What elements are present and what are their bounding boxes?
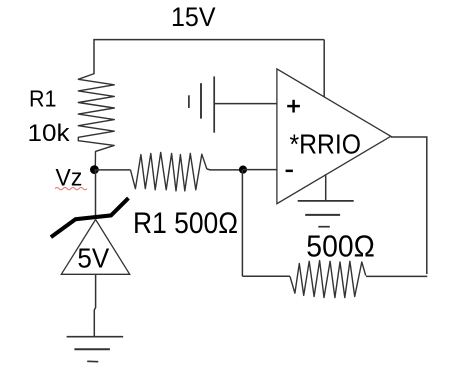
- wire feedback right lead: [366, 275, 427, 277]
- spellcheck squiggle under Vz: [55, 187, 87, 189]
- wire zener anode to ground: [94, 274, 95, 336]
- svg-text:5V: 5V: [77, 243, 109, 274]
- wire series resistor to inverting node: [207, 169, 243, 170]
- node Vz junction dot: [90, 165, 99, 174]
- svg-text:R1 500Ω: R1 500Ω: [133, 207, 238, 240]
- node inverting input junction dot: [239, 166, 247, 174]
- svg-text:*RRIO: *RRIO: [290, 129, 362, 160]
- op-amp minus input sign: [286, 170, 293, 173]
- svg-text:10k: 10k: [28, 120, 71, 147]
- wire op-amp V+ power pin: [323, 40, 325, 97]
- zener diode D1 anode triangle: [61, 220, 129, 275]
- resistor R1 500 ohm (horizontal zigzag): [131, 152, 207, 191]
- svg-text:Vz: Vz: [56, 165, 83, 192]
- svg-text:500Ω: 500Ω: [306, 229, 375, 264]
- ground (below op-amp): [298, 201, 354, 227]
- wire inverting node down to feedback: [241, 170, 243, 277]
- op-amp plus input sign: [287, 100, 300, 113]
- wire Vz node to series resistor: [94, 169, 130, 171]
- wire op-amp V- pin to ground: [325, 174, 327, 201]
- svg-text:R1: R1: [29, 86, 57, 112]
- wire op-amp output to feedback: [391, 137, 427, 274]
- op-amp U1 triangle: [277, 69, 391, 204]
- svg-text:15V: 15V: [171, 2, 216, 32]
- ground (sideways, at non-inverting input): [189, 76, 214, 132]
- wire top supply rail: [94, 40, 324, 74]
- wire sideways ground to op-amp plus input: [214, 103, 277, 105]
- zener diode D1 cathode bar (thick Z bar): [53, 200, 128, 237]
- wire feedback left lead: [242, 275, 290, 277]
- wire Vz node to zener cathode: [95, 170, 97, 217]
- resistor 500 ohm feedback (horizontal zigzag): [290, 261, 366, 298]
- wire inverting node to op-amp minus input: [243, 169, 277, 171]
- ground (below zener): [67, 337, 124, 362]
- resistor R1 10k (vertical zigzag): [78, 74, 114, 170]
